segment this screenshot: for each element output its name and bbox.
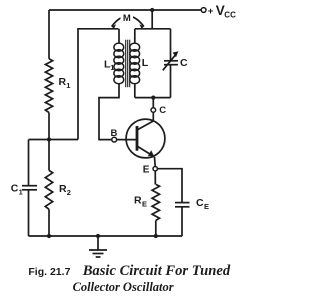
svg-text:1: 1 [66, 81, 70, 90]
svg-text:Basic Circuit For Tuned: Basic Circuit For Tuned [82, 263, 231, 279]
svg-text:C: C [11, 183, 19, 195]
svg-text:+: + [208, 6, 214, 17]
svg-text:E: E [204, 202, 209, 211]
svg-text:C: C [159, 105, 166, 116]
svg-text:B: B [111, 128, 118, 139]
svg-text:CC: CC [224, 11, 236, 20]
svg-text:Collector Oscillator: Collector Oscillator [73, 280, 174, 294]
svg-text:M: M [123, 13, 131, 24]
svg-text:R: R [134, 194, 142, 206]
svg-text:R: R [59, 183, 67, 195]
svg-text:R: R [59, 76, 67, 88]
svg-text:1: 1 [110, 63, 114, 72]
svg-text:C: C [180, 57, 188, 69]
svg-text:E: E [143, 165, 150, 176]
svg-text:C: C [196, 197, 204, 209]
svg-text:1: 1 [19, 188, 23, 197]
svg-text:L: L [142, 57, 149, 69]
svg-text:E: E [142, 199, 147, 208]
svg-text:Fig. 21.7: Fig. 21.7 [28, 266, 70, 278]
svg-text:2: 2 [67, 188, 71, 197]
